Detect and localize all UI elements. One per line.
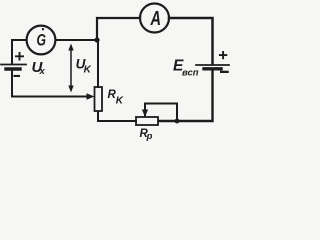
svg-text:всп: всп: [182, 68, 199, 78]
svg-text:K: K: [84, 65, 92, 76]
svg-text:p: p: [146, 131, 153, 142]
svg-text:K: K: [116, 96, 124, 107]
svg-text:x: x: [39, 66, 46, 77]
svg-text:G: G: [37, 31, 47, 50]
svg-text:A: A: [150, 8, 161, 30]
